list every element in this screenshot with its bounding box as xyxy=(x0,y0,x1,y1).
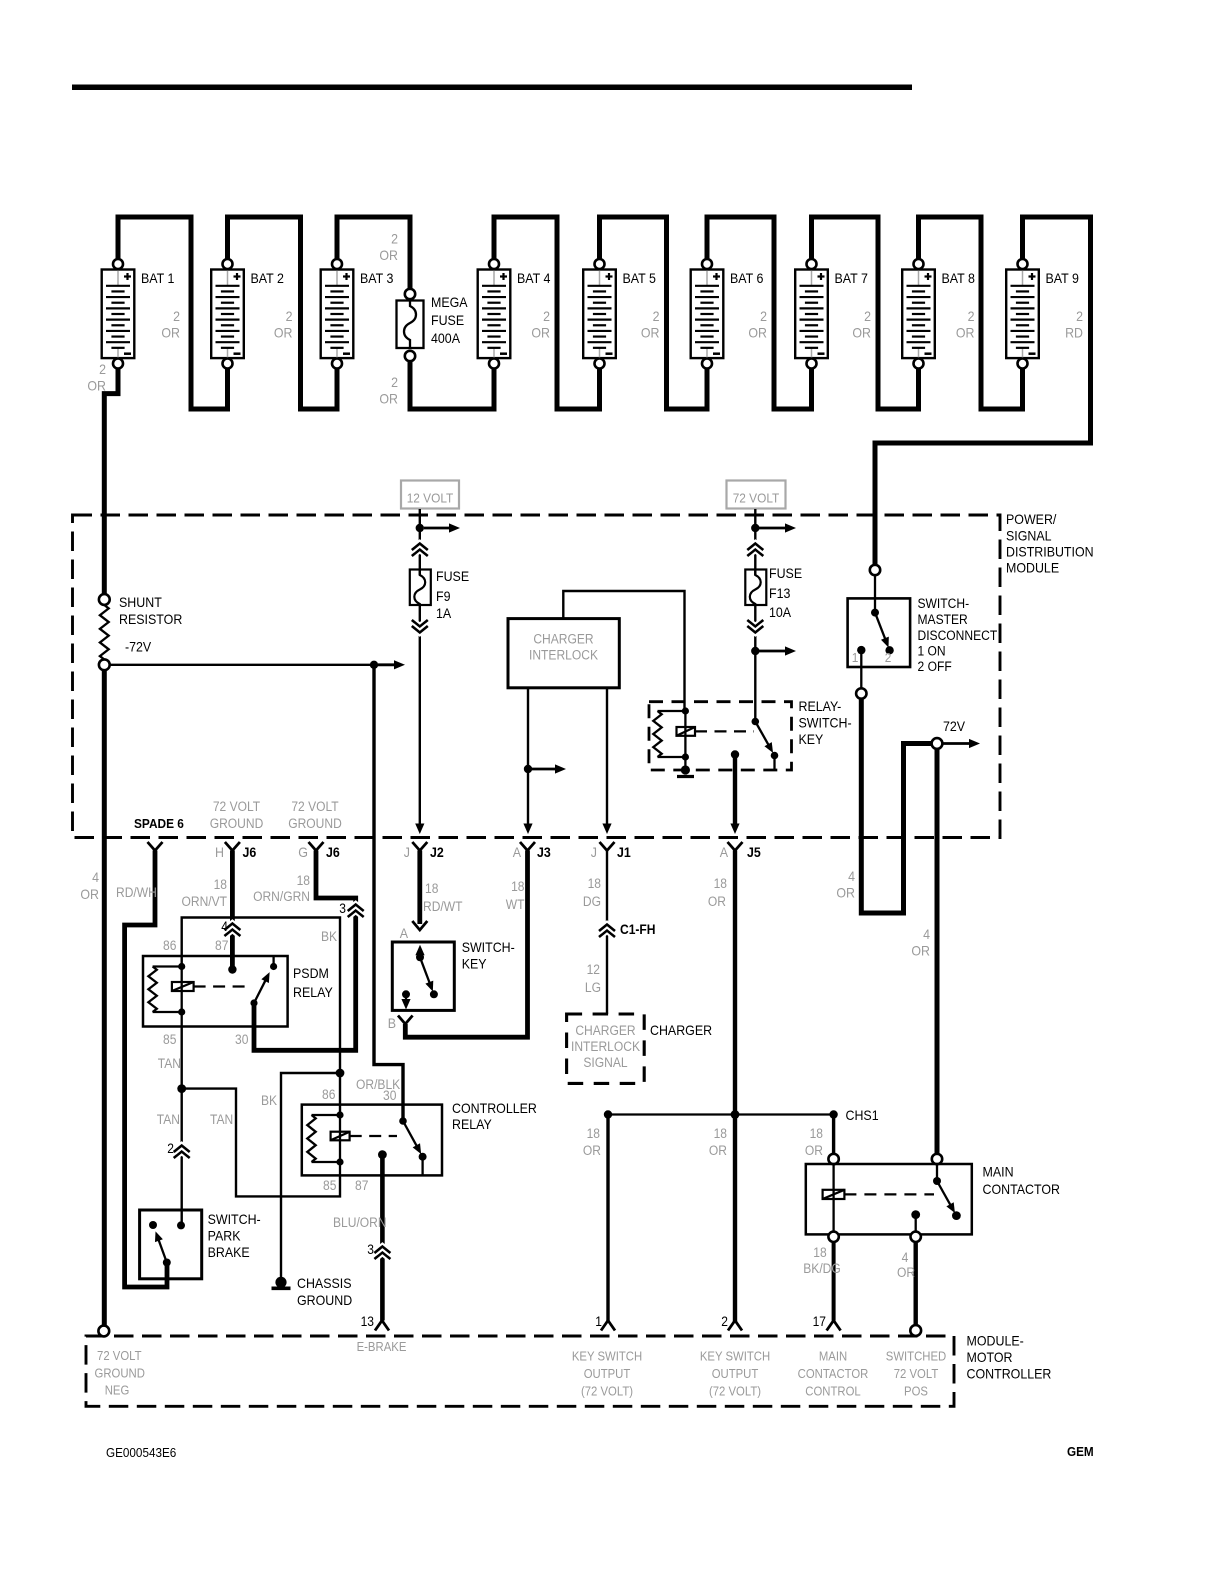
mega fuse 400A body xyxy=(397,301,424,349)
svg-text:J: J xyxy=(404,845,410,860)
svg-text:OR: OR xyxy=(805,1143,823,1158)
svg-text:85: 85 xyxy=(323,1178,336,1193)
wire BK psdm relay 86 loop to controller relay 86 xyxy=(182,918,340,1074)
terminal 72 volt ground neg xyxy=(98,1326,109,1337)
svg-text:NEG: NEG xyxy=(105,1384,130,1398)
main contactor switch xyxy=(936,1164,938,1181)
svg-text:GEM: GEM xyxy=(1067,1444,1094,1459)
svg-text:F9: F9 xyxy=(436,589,451,604)
svg-text:J2: J2 xyxy=(430,845,444,860)
arrow charger interlock tap xyxy=(532,768,557,771)
wire charger interlock to relay-switch-key coil xyxy=(563,591,684,711)
psdm relay box xyxy=(143,956,288,1027)
controller relay box xyxy=(302,1105,442,1176)
switch-key box xyxy=(392,942,454,1010)
svg-text:2: 2 xyxy=(99,362,106,377)
wire ORN/VT J6-H to PSDM relay 87 xyxy=(230,851,235,970)
svg-text:RD/WT: RD/WT xyxy=(423,899,463,914)
svg-text:J6: J6 xyxy=(243,845,257,860)
svg-text:OR: OR xyxy=(161,326,180,341)
svg-text:POWER/: POWER/ xyxy=(1006,512,1057,527)
svg-text:2: 2 xyxy=(167,1141,174,1156)
pin G J6 xyxy=(309,842,324,851)
connector chevron ORN/VT xyxy=(224,930,240,937)
wire battery series BAT6-BAT7 xyxy=(707,217,812,409)
svg-text:CONTROL: CONTROL xyxy=(805,1385,860,1399)
svg-text:GROUND: GROUND xyxy=(210,816,264,831)
svg-text:86: 86 xyxy=(322,1087,335,1102)
svg-text:CHASSIS: CHASSIS xyxy=(297,1276,352,1291)
svg-text:GROUND: GROUND xyxy=(288,816,342,831)
terminal circles BAT 5 xyxy=(595,259,605,269)
wire BLU/ORN controller relay 87 to e-brake pin 13 xyxy=(380,1155,385,1321)
arrow into pin J J2 xyxy=(415,824,424,835)
svg-text:TAN: TAN xyxy=(210,1112,233,1127)
pin 1 key switch output xyxy=(601,1321,615,1331)
pin J J1 xyxy=(600,842,615,851)
node CHS1 right junction xyxy=(829,1110,837,1118)
svg-text:SIGNAL: SIGNAL xyxy=(1006,529,1052,544)
svg-text:H: H xyxy=(215,845,224,860)
svg-text:72 VOLT: 72 VOLT xyxy=(213,799,260,814)
fuse F13 body xyxy=(745,570,766,606)
switch-master disconnect switch xyxy=(874,575,876,613)
arrow -72V tap xyxy=(378,663,396,666)
main contactor actuation dashed link xyxy=(844,1193,934,1195)
svg-text:87: 87 xyxy=(355,1178,368,1193)
wire battery series BAT8-BAT9 xyxy=(919,217,1023,409)
wire BAT3 to mega fuse xyxy=(337,217,410,294)
node CHS1 left junction xyxy=(604,1110,612,1118)
wire battery series BAT1-BAT2 xyxy=(118,217,228,409)
svg-text:TAN: TAN xyxy=(158,1056,181,1071)
pin 17 main contactor control xyxy=(827,1321,841,1331)
svg-text:FUSE: FUSE xyxy=(436,569,469,584)
svg-text:OR: OR xyxy=(379,392,398,407)
svg-text:GROUND: GROUND xyxy=(95,1367,145,1381)
svg-text:2: 2 xyxy=(286,309,293,324)
terminal circles BAT 7 xyxy=(807,259,817,269)
svg-text:CONTROLLER: CONTROLLER xyxy=(452,1101,537,1116)
battery BAT 4 xyxy=(478,270,551,359)
svg-text:OR: OR xyxy=(531,326,550,341)
svg-text:30: 30 xyxy=(383,1088,396,1103)
node fuse F13 output junction xyxy=(751,647,759,655)
svg-text:MODULE: MODULE xyxy=(1006,561,1059,576)
pin B of switch-key xyxy=(398,1016,413,1025)
wire ORN/GRN J6-G to PSDM relay 30 xyxy=(254,851,356,1051)
charger interlock box xyxy=(508,619,619,688)
svg-text:CHS1: CHS1 xyxy=(846,1108,879,1123)
svg-text:BAT 6: BAT 6 xyxy=(730,271,764,286)
svg-text:SWITCH-: SWITCH- xyxy=(918,596,970,611)
svg-text:MASTER: MASTER xyxy=(918,612,968,627)
switch-master disconnect output terminal xyxy=(856,688,866,698)
node -72V tap junction xyxy=(370,661,378,669)
wire BAT1 negative to shunt resistor xyxy=(104,365,118,600)
wire battery series BAT5-BAT6 xyxy=(600,217,708,409)
main contactor coil output terminal xyxy=(828,1232,838,1242)
svg-text:BK: BK xyxy=(321,929,337,944)
controller relay actuation dashed link xyxy=(350,1135,397,1137)
svg-text:OR: OR xyxy=(80,887,99,902)
svg-text:PARK: PARK xyxy=(208,1229,242,1244)
main contactor output contact xyxy=(911,1210,920,1219)
svg-text:SPADE 6: SPADE 6 xyxy=(134,816,184,831)
wire charger interlock to connector J3 xyxy=(527,688,529,825)
svg-text:17: 17 xyxy=(813,1314,826,1329)
arrow 72 volt tap xyxy=(759,527,787,530)
battery BAT 3 xyxy=(321,270,394,359)
svg-text:BRAKE: BRAKE xyxy=(208,1245,250,1260)
svg-text:DISTRIBUTION: DISTRIBUTION xyxy=(1006,545,1094,560)
svg-text:SWITCHED: SWITCHED xyxy=(886,1350,947,1364)
svg-text:KEY: KEY xyxy=(799,732,824,747)
header rule xyxy=(72,85,912,91)
relay-switch-key coil ground tie xyxy=(681,765,690,774)
svg-text:BLU/ORN: BLU/ORN xyxy=(333,1215,387,1230)
svg-text:72 VOLT: 72 VOLT xyxy=(291,799,338,814)
wire RD/WH spade 6 to switch-park brake xyxy=(125,851,167,1288)
battery BAT 7 xyxy=(795,270,868,359)
svg-text:1A: 1A xyxy=(436,606,452,621)
svg-text:2: 2 xyxy=(864,309,871,324)
svg-text:KEY SWITCH: KEY SWITCH xyxy=(572,1350,642,1364)
svg-text:4: 4 xyxy=(902,1250,909,1265)
switch-park brake box xyxy=(140,1210,202,1279)
terminal circles BAT 3 xyxy=(332,259,342,269)
relay-switch-key actuation dashed link xyxy=(695,730,754,732)
terminal circles BAT 9 xyxy=(1018,259,1028,269)
switch-master disconnect box xyxy=(848,598,911,667)
svg-text:B: B xyxy=(388,1016,396,1031)
svg-text:3: 3 xyxy=(339,901,346,916)
svg-text:BAT 8: BAT 8 xyxy=(942,271,976,286)
terminal circles BAT 2 xyxy=(223,259,233,269)
wire TAN junction to controller relay 85 xyxy=(182,1089,340,1197)
svg-text:J1: J1 xyxy=(617,845,631,860)
wire OR J5 to key switch output 2 xyxy=(733,851,737,1323)
svg-text:4: 4 xyxy=(848,869,855,884)
svg-text:SWITCH-: SWITCH- xyxy=(799,716,852,731)
module-motor controller dashed box xyxy=(86,1336,954,1406)
wire WT J3 to switch-key B xyxy=(405,851,527,1038)
connector chevron BLU/ORN xyxy=(374,1253,390,1260)
main contactor coil input terminal xyxy=(828,1154,838,1164)
wire -72V rail from shunt xyxy=(110,664,375,666)
terminal circles BAT 4 xyxy=(489,259,499,269)
svg-text:18: 18 xyxy=(810,1126,823,1141)
svg-text:72 VOLT: 72 VOLT xyxy=(733,491,780,506)
node 12 volt junction xyxy=(416,524,424,532)
svg-text:OR: OR xyxy=(748,326,767,341)
svg-text:KEY SWITCH: KEY SWITCH xyxy=(700,1350,770,1364)
svg-text:ORN/VT: ORN/VT xyxy=(182,894,228,909)
wire fuse F13 to relay-switch-key xyxy=(754,605,756,722)
battery BAT 1 xyxy=(102,270,175,359)
fuse F9 body xyxy=(410,570,431,606)
svg-text:2: 2 xyxy=(760,309,767,324)
12 VOLT source label box xyxy=(401,481,459,509)
svg-text:CONTROLLER: CONTROLLER xyxy=(967,1367,1052,1382)
svg-text:18: 18 xyxy=(511,879,524,894)
pin H J6 xyxy=(225,842,240,851)
svg-text:INTERLOCK: INTERLOCK xyxy=(571,1039,640,1054)
wire TAN psdm relay 85 to park brake switch xyxy=(180,1027,182,1226)
wire CHS1 bus xyxy=(608,1113,834,1115)
wire 72V node to main contactor xyxy=(935,749,940,1160)
connector chevron below fuse F13 xyxy=(747,620,763,627)
svg-text:LG: LG xyxy=(585,980,601,995)
controller relay coil xyxy=(336,1111,343,1118)
svg-text:BAT 7: BAT 7 xyxy=(835,271,868,286)
svg-text:72 VOLT: 72 VOLT xyxy=(97,1349,142,1363)
wire mega fuse to BAT4 xyxy=(410,356,494,409)
connector chevron TAN xyxy=(174,1152,190,1159)
svg-text:OR: OR xyxy=(379,248,398,263)
svg-text:SIGNAL: SIGNAL xyxy=(583,1055,627,1070)
svg-text:18: 18 xyxy=(714,876,727,891)
wire fuse F9 to connector J2 xyxy=(419,605,421,825)
svg-text:FUSE: FUSE xyxy=(769,566,802,581)
switch-key contact B xyxy=(402,990,410,998)
switch-master disconnect input terminal xyxy=(870,565,880,575)
svg-text:J3: J3 xyxy=(537,845,551,860)
svg-text:TAN: TAN xyxy=(157,1112,180,1127)
connector chevron ORN/GRN xyxy=(348,911,364,918)
svg-text:A: A xyxy=(720,845,729,860)
battery BAT 2 xyxy=(211,270,284,359)
svg-text:2: 2 xyxy=(968,309,975,324)
wire 72 volt ground neg (left vertical) xyxy=(102,670,107,1330)
psdm relay coil xyxy=(178,963,185,970)
svg-text:PSDM: PSDM xyxy=(293,966,329,981)
svg-text:18: 18 xyxy=(588,876,601,891)
svg-text:18: 18 xyxy=(425,881,438,896)
svg-text:CHARGER: CHARGER xyxy=(575,1023,636,1038)
svg-text:MODULE-: MODULE- xyxy=(967,1334,1024,1349)
svg-text:1 ON: 1 ON xyxy=(918,644,946,659)
svg-text:A: A xyxy=(400,926,409,941)
svg-text:INTERLOCK: INTERLOCK xyxy=(529,648,598,663)
svg-text:2: 2 xyxy=(885,650,892,665)
main contactor switched output terminal xyxy=(911,1232,921,1242)
node 72V xyxy=(932,738,943,749)
svg-text:OR: OR xyxy=(956,326,975,341)
terminal circles BAT 6 xyxy=(702,259,712,269)
pin 13 e-brake xyxy=(375,1321,389,1331)
svg-text:2: 2 xyxy=(173,309,180,324)
battery BAT 9 xyxy=(1006,270,1079,359)
pin A J3 xyxy=(520,842,535,851)
node 72 volt junction xyxy=(751,524,759,532)
wire 72 volt feed to fuse F13 xyxy=(754,509,756,575)
terminal circles BAT 1 xyxy=(113,259,123,269)
main contactor coil xyxy=(832,1164,834,1232)
svg-text:G: G xyxy=(298,845,308,860)
svg-text:ORN/GRN: ORN/GRN xyxy=(253,889,310,904)
svg-text:12 VOLT: 12 VOLT xyxy=(407,491,454,506)
svg-text:SWITCH-: SWITCH- xyxy=(462,940,515,955)
svg-text:POS: POS xyxy=(904,1385,928,1399)
svg-text:1: 1 xyxy=(852,650,859,665)
wire DG J1 to charger interlock signal xyxy=(606,851,608,1014)
wire disconnect output to 72V node xyxy=(861,699,934,914)
node CHS1 center junction xyxy=(731,1110,740,1119)
svg-text:(72 VOLT): (72 VOLT) xyxy=(709,1385,761,1399)
svg-text:OR: OR xyxy=(87,379,106,394)
connector chevron below fuse F9 xyxy=(412,620,428,627)
wire BAT9 positive to switch-master disconnect xyxy=(875,217,1091,570)
wire BK junction to chassis ground xyxy=(281,1073,340,1277)
wire 86 into controller relay xyxy=(339,1073,341,1115)
svg-text:RELAY-: RELAY- xyxy=(799,699,842,714)
svg-text:OR: OR xyxy=(852,326,871,341)
battery BAT 5 xyxy=(583,270,656,359)
svg-text:MOTOR: MOTOR xyxy=(967,1350,1013,1365)
svg-text:MAIN: MAIN xyxy=(819,1350,847,1364)
svg-text:OR: OR xyxy=(709,1143,727,1158)
svg-text:13: 13 xyxy=(361,1314,374,1329)
svg-text:FUSE: FUSE xyxy=(431,313,464,328)
svg-text:2: 2 xyxy=(391,375,398,390)
svg-text:MAIN: MAIN xyxy=(983,1165,1014,1180)
svg-text:BAT 3: BAT 3 xyxy=(360,271,394,286)
svg-text:J5: J5 xyxy=(747,845,761,860)
wire charger interlock to connector J1 xyxy=(606,688,608,825)
node charger interlock tap xyxy=(524,765,532,773)
svg-text:OR: OR xyxy=(897,1265,915,1280)
svg-text:CONTACTOR: CONTACTOR xyxy=(798,1367,869,1381)
relay-switch-key switch xyxy=(752,718,760,726)
wire BK/DG contactor coil to pin 17 xyxy=(832,1242,836,1321)
wire OR CHS1 to main contactor coil xyxy=(832,1115,835,1160)
node BK junction xyxy=(336,1069,345,1078)
mega fuse F400 terminals xyxy=(405,289,415,299)
svg-text:72V: 72V xyxy=(943,719,966,734)
pin A of switch-key xyxy=(412,921,427,930)
pin 2 key switch output xyxy=(728,1321,742,1331)
main contactor box xyxy=(806,1164,972,1234)
svg-text:CHARGER: CHARGER xyxy=(650,1023,712,1038)
svg-text:RELAY: RELAY xyxy=(293,985,333,1000)
relay-switch-key dashed box xyxy=(649,702,792,770)
svg-text:CHARGER: CHARGER xyxy=(533,632,594,647)
wire battery series BAT7-BAT8 xyxy=(812,217,919,409)
psdm relay actuation dashed link xyxy=(194,985,250,987)
svg-text:1: 1 xyxy=(595,1314,602,1329)
wire 12 volt feed to fuse F9 xyxy=(419,509,421,575)
arrow 72V tap xyxy=(944,742,972,745)
svg-text:OUTPUT: OUTPUT xyxy=(584,1367,631,1381)
svg-text:(72 VOLT): (72 VOLT) xyxy=(581,1385,633,1399)
svg-text:10A: 10A xyxy=(769,605,792,620)
svg-text:12: 12 xyxy=(587,962,600,977)
svg-text:BAT 2: BAT 2 xyxy=(251,271,284,286)
svg-text:87: 87 xyxy=(215,938,228,953)
svg-text:WT: WT xyxy=(506,897,525,912)
controller relay switch xyxy=(399,1117,407,1125)
svg-text:-72V: -72V xyxy=(125,640,152,655)
svg-text:SHUNT: SHUNT xyxy=(119,595,162,610)
pin SPADE 6 xyxy=(148,842,163,851)
wire RD/WT J2 to switch-key A xyxy=(417,851,422,925)
svg-text:4: 4 xyxy=(92,870,99,885)
svg-text:86: 86 xyxy=(163,938,176,953)
svg-text:4: 4 xyxy=(221,919,228,934)
connector chevron above fuse F13 xyxy=(747,550,763,557)
switch-key switch xyxy=(419,949,421,957)
psdm relay switch xyxy=(270,963,277,970)
svg-text:2: 2 xyxy=(391,232,398,247)
arrow into pin J J1 xyxy=(602,824,611,835)
main contactor switch input terminal xyxy=(932,1154,942,1164)
pin A J5 xyxy=(728,842,743,851)
72 VOLT source label box xyxy=(727,481,786,509)
svg-text:OR: OR xyxy=(274,326,293,341)
svg-text:SWITCH-: SWITCH- xyxy=(208,1212,261,1227)
terminal circles BAT 8 xyxy=(914,259,924,269)
svg-text:MEGA: MEGA xyxy=(431,295,468,310)
arrow into pin A J3 xyxy=(523,824,532,835)
svg-text:85: 85 xyxy=(163,1032,176,1047)
svg-text:2: 2 xyxy=(1076,309,1083,324)
battery BAT 8 xyxy=(902,270,975,359)
svg-text:RESISTOR: RESISTOR xyxy=(119,612,182,627)
svg-text:DG: DG xyxy=(583,894,601,909)
svg-text:BAT 5: BAT 5 xyxy=(623,271,657,286)
svg-text:BAT 4: BAT 4 xyxy=(517,271,551,286)
svg-text:RD/WH: RD/WH xyxy=(116,885,157,900)
connector chevron above fuse F9 xyxy=(412,550,428,557)
svg-text:DISCONNECT: DISCONNECT xyxy=(918,628,998,643)
connector chevron C1-FH xyxy=(599,931,615,938)
svg-text:18: 18 xyxy=(587,1126,600,1141)
svg-text:18: 18 xyxy=(813,1245,826,1260)
svg-text:400A: 400A xyxy=(431,331,461,346)
arrow 12 volt tap xyxy=(424,527,451,530)
svg-text:OR: OR xyxy=(836,886,855,901)
power/signal distribution module dashed box xyxy=(73,515,1001,838)
svg-text:30: 30 xyxy=(235,1032,248,1047)
wire battery series BAT4-BAT5 xyxy=(494,217,600,409)
psdm relay contact 87 terminal xyxy=(228,965,236,973)
svg-text:18: 18 xyxy=(214,877,227,892)
svg-text:A: A xyxy=(513,845,522,860)
svg-text:CONTACTOR: CONTACTOR xyxy=(983,1182,1061,1197)
relay-switch-key coil xyxy=(682,707,689,714)
svg-text:2: 2 xyxy=(653,309,660,324)
svg-text:BAT 9: BAT 9 xyxy=(1046,271,1080,286)
wire OR/BLK -72V to controller relay 30 xyxy=(374,665,403,1121)
svg-text:18: 18 xyxy=(714,1126,727,1141)
svg-text:C1-FH: C1-FH xyxy=(620,922,656,937)
terminal switched 72 volt pos xyxy=(910,1325,921,1336)
svg-text:OR: OR xyxy=(911,944,930,959)
svg-text:OR: OR xyxy=(583,1143,601,1158)
svg-text:GE000543E6: GE000543E6 xyxy=(106,1445,176,1460)
svg-text:2: 2 xyxy=(721,1314,728,1329)
svg-text:RD: RD xyxy=(1065,326,1083,341)
svg-text:OR: OR xyxy=(708,894,726,909)
wire switched 72 volt pos to module xyxy=(914,1242,918,1326)
switch-park brake switch xyxy=(149,1221,157,1229)
svg-text:J: J xyxy=(591,845,597,860)
relay-switch-key output contact to J5 xyxy=(731,750,739,758)
svg-text:BK/DG: BK/DG xyxy=(803,1261,841,1276)
svg-text:RELAY: RELAY xyxy=(452,1117,492,1132)
chassis ground symbol xyxy=(275,1277,286,1288)
